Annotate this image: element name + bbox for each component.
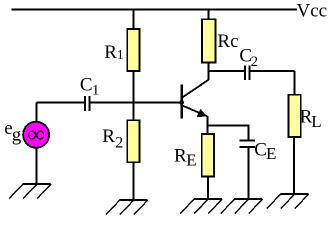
svg-text:g: g [12,125,22,146]
svg-text:∞: ∞ [28,122,45,148]
svg-text:Vcc: Vcc [297,0,328,21]
svg-text:Rc: Rc [217,31,238,52]
svg-text:1: 1 [92,82,100,98]
svg-text:1: 1 [117,48,124,63]
svg-text:R: R [102,126,115,147]
svg-text:2: 2 [115,135,123,152]
svg-text:R: R [104,42,117,63]
svg-text:E: E [186,151,196,170]
svg-text:E: E [266,144,276,163]
svg-text:L: L [311,112,321,131]
svg-text:C: C [80,75,93,96]
svg-text:2: 2 [251,54,259,70]
svg-text:R: R [174,146,187,167]
